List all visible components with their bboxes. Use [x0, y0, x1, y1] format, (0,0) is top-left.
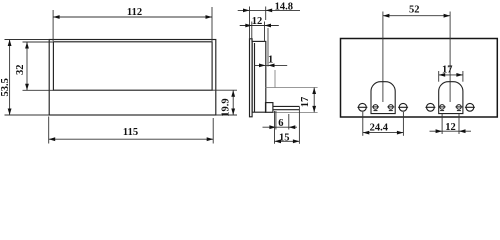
dimension 15 [275, 106, 300, 143]
svg-text:1: 1 [268, 55, 273, 66]
side view case body [252, 41, 266, 112]
side view stud top line [273, 105, 300, 107]
right dome screws [439, 105, 463, 111]
side view hidden lines [266, 70, 318, 112]
dimension 12 (side) [240, 22, 279, 42]
dimension 115 [49, 117, 214, 144]
svg-text:53.5: 53.5 [0, 78, 11, 96]
front view outer rect (115 x 53.5) [49, 40, 216, 116]
side view case inner line [254, 43, 256, 112]
svg-text:19.9: 19.9 [220, 98, 231, 116]
rear view body [341, 39, 498, 118]
svg-text:15: 15 [279, 133, 290, 144]
svg-text:12: 12 [445, 122, 456, 133]
front view inner rect (112 wide window) [53, 42, 212, 90]
dimension 52 [383, 15, 450, 17]
left dome screws [372, 105, 394, 111]
dimension 112 [53, 7, 212, 41]
svg-text:14.8: 14.8 [275, 2, 293, 13]
side view rear lip line [267, 28, 269, 67]
dimension 32 [23, 42, 54, 90]
svg-text:17: 17 [442, 65, 453, 76]
dimension 17 (rear) [439, 71, 463, 82]
svg-text:17: 17 [300, 97, 311, 108]
dimension 17 (side) [313, 88, 315, 113]
dimension 24.4 [363, 112, 404, 136]
dimension 19.9 [212, 90, 237, 115]
left outer terminals [357, 103, 408, 111]
svg-text:24.4: 24.4 [370, 123, 389, 134]
svg-text:6: 6 [278, 118, 283, 129]
side view stud bottom line [273, 109, 300, 111]
dimension 53.5 [5, 40, 50, 116]
dimension 1 [254, 64, 287, 66]
dimension 14.8 [238, 7, 300, 40]
right terminal dome [439, 82, 463, 114]
side view bezel plate [250, 39, 253, 117]
left terminal dome [371, 82, 395, 114]
dimension 12 (rear) [430, 114, 472, 135]
svg-text:115: 115 [123, 127, 138, 138]
svg-text:112: 112 [127, 7, 142, 18]
svg-text:12: 12 [252, 16, 263, 27]
svg-text:52: 52 [409, 5, 420, 16]
right outer terminals [425, 103, 475, 111]
svg-text:32: 32 [15, 64, 26, 75]
dimension 6 [263, 111, 298, 130]
terminal group centerlines [383, 12, 450, 103]
side view terminal step [266, 103, 273, 113]
